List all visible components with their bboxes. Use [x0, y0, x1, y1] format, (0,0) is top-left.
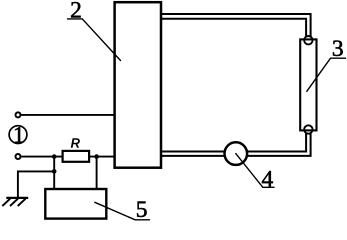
- svg-text:1: 1: [13, 123, 25, 148]
- label 4: [236, 154, 274, 193]
- junction A (left of resistor): [52, 154, 57, 159]
- terminal T1a: [16, 112, 21, 117]
- block 2 (device under test): [115, 2, 161, 168]
- svg-text:R: R: [71, 136, 80, 151]
- svg-text:4: 4: [262, 166, 274, 192]
- wire pair bottom: lamp bottom electrode to starter 4: [247, 133, 311, 156]
- box 5 (measuring unit): [45, 189, 106, 219]
- ground: [2, 198, 28, 206]
- lamp 3 (tube): [300, 36, 316, 134]
- wire junction C to ground: [18, 171, 54, 197]
- starter 4 (circle): [225, 142, 248, 165]
- label 3: [307, 36, 346, 91]
- label 2: [68, 0, 121, 61]
- wire terminal T1a to block 2: [21, 114, 114, 116]
- terminal T1b: [16, 154, 21, 159]
- wire junction B down to box 5: [96, 157, 98, 189]
- junction B (right of resistor): [94, 154, 99, 159]
- wire junction A down to box 5: [53, 157, 55, 189]
- svg-text:5: 5: [136, 197, 148, 222]
- wire pair bottom: starter 4 to block 2: [161, 152, 225, 156]
- label 5: [95, 197, 150, 223]
- wire resistor R to block 2: [89, 156, 114, 158]
- label 1 (circled): [9, 123, 27, 148]
- junction C (ground branch): [52, 169, 57, 174]
- wire terminal T1b to resistor R: [21, 156, 62, 158]
- resistor R: [63, 151, 90, 162]
- wire pair top: block 2 to lamp top electrode: [161, 14, 311, 38]
- svg-text:2: 2: [70, 0, 82, 24]
